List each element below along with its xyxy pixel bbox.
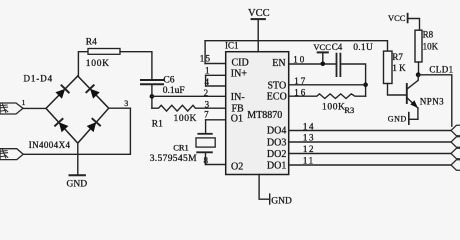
svg-text:GND: GND — [67, 179, 88, 189]
bridge D1-D4 diamond — [46, 76, 109, 143]
connector tag P2 (phone line) — [0, 149, 23, 160]
svg-text:ECO: ECO — [267, 92, 287, 103]
wire C6 to junction — [151, 84, 153, 108]
wire R7 to base — [388, 84, 407, 96]
svg-text:100K: 100K — [322, 103, 346, 113]
svg-text:DO4: DO4 — [267, 126, 286, 137]
svg-text:VCC: VCC — [313, 42, 331, 52]
svg-text:O2: O2 — [231, 161, 243, 172]
wire pin7 to crystal — [205, 120, 207, 134]
svg-text:EN: EN — [272, 58, 285, 69]
resistor R1 — [152, 105, 226, 111]
pin 4 stub — [206, 85, 226, 87]
svg-text:IN-: IN- — [231, 92, 245, 103]
connector tag DO4 (right) — [451, 125, 460, 135]
crystal CR1 — [198, 133, 212, 135]
svg-text:O1: O1 — [231, 113, 243, 124]
svg-text:2: 2 — [204, 88, 209, 98]
svg-text:10: 10 — [293, 55, 306, 65]
svg-text:0.1uF: 0.1uF — [163, 86, 185, 96]
svg-text:VCC: VCC — [388, 13, 406, 23]
resistor R4 — [88, 49, 120, 55]
svg-text:1: 1 — [22, 98, 26, 107]
wire CLD1 — [418, 75, 452, 126]
wire junction to pin2 IN- — [152, 95, 226, 97]
capacitor C6 — [141, 79, 163, 81]
capacitor C4 — [336, 54, 338, 77]
pin 7 stub — [206, 119, 226, 121]
svg-text:C4: C4 — [332, 42, 343, 52]
svg-text:0.1U: 0.1U — [353, 43, 373, 53]
wire R8 to node — [418, 62, 420, 75]
svg-text:DO3: DO3 — [267, 137, 286, 148]
svg-text:C6: C6 — [163, 76, 174, 86]
wire tag2 to corner — [23, 108, 130, 154]
svg-text:NPN3: NPN3 — [420, 97, 444, 107]
svg-text:R1: R1 — [152, 120, 163, 130]
svg-text:STO: STO — [268, 81, 287, 92]
svg-text:D1-D4: D1-D4 — [24, 74, 54, 84]
ground (IC bottom) — [259, 175, 270, 200]
svg-text:100K: 100K — [174, 114, 198, 124]
svg-text:R8: R8 — [423, 30, 434, 40]
wire pin10 EN to C4 — [289, 63, 337, 65]
svg-text:DO1: DO1 — [267, 160, 286, 171]
svg-text:12: 12 — [303, 144, 315, 154]
connector tag DO2 (right) — [451, 148, 460, 158]
node CLD1 junction — [416, 72, 421, 77]
svg-text:GND: GND — [388, 115, 407, 124]
IC IC1 MT8870 DTMF decoder body — [226, 52, 289, 175]
svg-text:MT8870: MT8870 — [247, 110, 282, 121]
resistor R8 — [415, 30, 422, 62]
pin 1 stub — [206, 74, 226, 76]
diode D-BL — [55, 119, 69, 133]
wire bridge right corner — [109, 107, 131, 109]
diode D-BR — [86, 119, 100, 133]
wire pin1-pin4 — [205, 75, 207, 86]
wire R4 to C6 — [120, 52, 152, 80]
wire C4 right down to R3 — [340, 64, 365, 96]
svg-text:1: 1 — [205, 66, 210, 76]
node junction C6/R1/IN- — [150, 94, 155, 99]
pin 15 stub + vertical to top wire — [205, 63, 226, 65]
svg-text:3: 3 — [205, 99, 210, 109]
svg-text:IN+: IN+ — [231, 68, 248, 79]
long top wire to R7 — [205, 41, 387, 51]
svg-text:VCC: VCC — [248, 8, 270, 19]
connector tag P1 (phone line) — [0, 103, 23, 114]
svg-text:IN4004X4: IN4004X4 — [29, 140, 71, 150]
ground (bridge) — [77, 143, 79, 175]
node junction VCC/pin10 — [321, 62, 326, 67]
diode D-TL — [55, 85, 69, 99]
svg-text:3: 3 — [124, 99, 128, 108]
svg-text:IC1: IC1 — [225, 40, 239, 50]
svg-text:DO2: DO2 — [267, 149, 286, 160]
svg-text:3.579545M: 3.579545M — [150, 154, 197, 164]
diode D-TR — [86, 85, 100, 99]
svg-text:1 K: 1 K — [392, 63, 406, 73]
svg-text:11: 11 — [303, 156, 315, 166]
svg-text:R4: R4 — [86, 38, 97, 48]
ground (emitter) — [409, 118, 418, 120]
svg-text:R3: R3 — [344, 105, 354, 115]
svg-text:13: 13 — [303, 133, 315, 143]
svg-text:100K: 100K — [86, 59, 110, 69]
wire crystal to pin8 O2 — [205, 152, 207, 164]
svg-text:7: 7 — [204, 110, 209, 120]
svg-text:R7: R7 — [392, 52, 403, 62]
svg-text:10K: 10K — [423, 41, 439, 51]
connector tag DO3 (right) — [451, 137, 460, 147]
connector tag DO1 (right) — [451, 160, 460, 170]
wire bridge top to R4 — [78, 52, 88, 76]
svg-text:CLD1: CLD1 — [429, 65, 453, 75]
resistor R7 — [384, 51, 393, 83]
svg-text:CR1: CR1 — [173, 142, 189, 152]
wire tag1 to bridge left — [23, 107, 46, 109]
svg-text:CID: CID — [232, 57, 249, 68]
node junction pin17 — [363, 83, 368, 88]
svg-text:GND: GND — [271, 197, 292, 207]
transistor Q1 NPN3 (base bar, collector, emitter+arrow) — [406, 84, 408, 103]
